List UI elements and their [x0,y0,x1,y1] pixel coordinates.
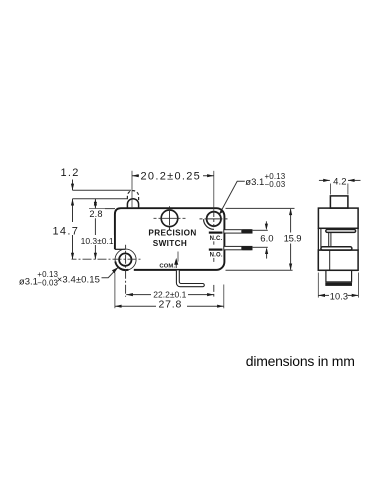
10.3 arrows on line B [94,209,97,216]
N.C. bar inside body [209,232,223,234]
thick lower-left arc of boss [115,262,128,271]
dim line A x=72.5 : 1.2 above, 14.7 below [72,180,74,191]
10.3 dim line [318,294,329,296]
10.3 ext lines [317,273,319,298]
svg-text:15.9: 15.9 [284,234,302,245]
svg-text:ø3.1: ø3.1 [245,177,264,188]
dim line B x=95.4 : 2.8 / 10.3 [94,199,96,260]
side view center line lower [329,250,331,270]
svg-text:−0.03: −0.03 [37,279,58,288]
centerlines of right hole [200,211,228,297]
svg-text:6.0: 6.0 [260,234,273,245]
top middle circle [161,210,178,227]
svg-text:2.8: 2.8 [89,209,102,219]
mounting hole bottom-left [119,253,131,265]
svg-text:dimensions in mm: dimensions in mm [246,353,355,369]
27.8 left ext [114,273,116,309]
COM L-shaped terminal at bottom [176,270,204,286]
ext line plunger pressed top (y=198.8) [73,198,129,200]
side view top block [318,208,358,228]
side view plunger [330,196,348,208]
switch body outline (front view) [115,208,224,270]
1.2/14.7 shared arrow (up, tip y=198.8) [71,199,74,206]
20.2 right ext [213,171,215,212]
15.9 arrows [289,208,292,215]
svg-text:×3.4±0.15: ×3.4±0.15 [57,275,100,286]
dia3.1 bottom leader [102,267,119,278]
22.2 arrows [126,293,133,296]
27.8 right ext [223,285,225,309]
15.9 ext top (body top extended) [226,207,295,209]
side view dimensions [318,180,360,297]
2.8 arrows on line B [94,199,97,206]
4.2 dim line [319,179,330,181]
svg-text:27.8: 27.8 [159,298,183,310]
dia3.1 bottom leader arrowhead [112,267,118,273]
svg-text:4.2: 4.2 [333,176,347,187]
side view lower block [318,250,358,270]
15.9 ext bottom (body bottom extended) [226,269,293,271]
boss arc of top right hole [204,219,215,229]
COM arrow pointing up [175,260,178,268]
20.2 left ext (plunger centerline) [131,171,133,208]
svg-text:N.C.: N.C. [210,236,223,242]
svg-text:10.3±0.1: 10.3±0.1 [81,236,114,246]
27.8 dim line [115,305,224,307]
svg-text:PRECISION: PRECISION [148,229,196,238]
6.0 arrow tails [265,221,267,228]
side view center channel lines [328,232,330,247]
svg-text:SWITCH: SWITCH [153,239,187,248]
6.0 ext bottom [253,246,268,248]
14.7 bottom arrow (down, tip y=259.4) [71,253,74,260]
N.O. terminal (right bottom) [224,246,253,250]
20.2 dim line [132,175,214,177]
svg-text:−0.03: −0.03 [265,180,286,189]
svg-text:14.7: 14.7 [53,226,80,238]
4.2 arrows [323,179,330,182]
svg-text:10.3: 10.3 [330,292,348,302]
svg-text:COM.: COM. [159,264,175,270]
1.2 top arrow (down) [71,184,74,191]
COM centerline into body [177,252,179,262]
dia3.1 top leader [219,181,245,214]
6.0 arrows [265,224,268,231]
centerlines of middle circle [154,206,186,230]
4.2 ext lines [329,184,331,195]
N.C. terminal (right top) [224,229,253,233]
plunger (pressed, solid) [127,199,138,209]
svg-text:20.2±0.25: 20.2±0.25 [141,171,202,183]
boss step line top-left of mounting hole [115,248,126,250]
svg-text:N.O.: N.O. [210,253,223,259]
ext line body top extended left (y=208.6) [89,208,115,210]
27.8 arrows [115,305,122,308]
side view bar2 [321,247,352,250]
dia3.1 top leader arrowhead [219,208,224,214]
svg-text:ø3.1: ø3.1 [19,276,38,287]
plunger (released, dashed) [127,191,138,201]
ext line plunger free top (y=190.3) [73,189,132,191]
15.9 dim line [290,209,292,270]
22.2 dim line [126,294,214,296]
top right hole [207,212,221,226]
side view dark terminal strip [325,283,352,286]
side view right edge middle [357,228,359,250]
side view terminal block [326,270,352,282]
6.0 ext top [253,229,268,231]
svg-text:1.2: 1.2 [61,167,80,179]
side view middle left edge [317,228,319,250]
10.3 arrows [318,294,325,297]
arrowheads main view [71,174,292,308]
20.2 arrows [132,174,139,177]
N.O. bar inside body [209,249,223,251]
mounting boss circle bottom-left [115,249,136,270]
side view bar1 [326,230,356,233]
centerlines of bottom-left hole [72,245,142,297]
